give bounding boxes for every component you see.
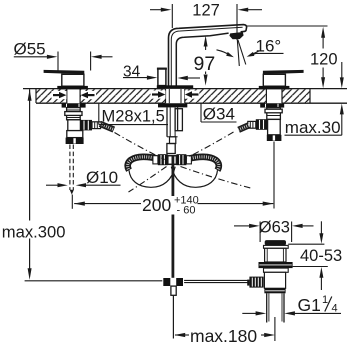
left valve lower body	[67, 131, 83, 138]
dashed pull rod under left valve	[70, 145, 74, 195]
swing arc upper right	[184, 132, 234, 160]
left escutcheon	[57, 86, 88, 90]
angle 16 degrees	[217, 40, 284, 67]
right lever handle	[263, 70, 304, 86]
dimension 120	[247, 26, 328, 88]
drain pop-up waste body	[259, 240, 293, 293]
pop-up rod joint	[163, 278, 183, 286]
swing arc lower right	[181, 167, 253, 189]
right valve locknut	[260, 103, 284, 107]
dimension 127 top	[150, 4, 262, 40]
drain tailpipe	[267, 293, 284, 322]
right valve extension line	[273, 142, 275, 209]
right braided hose	[189, 157, 219, 170]
dimension G1 1/4	[242, 311, 341, 315]
spout shank below counter	[158, 103, 187, 153]
dimension 40-53	[288, 221, 328, 290]
left valve hose stub	[100, 124, 114, 130]
svg-text:M28x1,5: M28x1,5	[102, 108, 165, 126]
svg-text:Ø10: Ø10	[86, 168, 118, 187]
swing arc upper left	[115, 133, 165, 160]
drain centerline extension	[274, 317, 276, 341]
right valve inlet nut	[248, 119, 268, 130]
svg-text:max.30: max.30	[285, 118, 341, 137]
label diameter 34	[201, 103, 237, 122]
dimension max.30	[285, 62, 344, 135]
svg-text:127: 127	[192, 1, 220, 19]
hole arrows left valve	[52, 91, 97, 99]
svg-text:Ø34: Ø34	[203, 105, 235, 124]
hole spout	[165, 89, 185, 103]
hole right valve	[266, 89, 282, 103]
dimension 200 +140 -60	[72, 195, 273, 209]
svg-text:40-53: 40-53	[300, 247, 342, 265]
countertop hatched section	[23, 89, 347, 104]
left valve bottom hex	[66, 138, 84, 144]
hole left valve	[67, 89, 81, 103]
hole arrows spout	[151, 91, 200, 99]
dimension max.180	[174, 333, 275, 337]
svg-text:- 60: - 60	[177, 205, 196, 217]
horizontal pop-up rod	[184, 280, 249, 282]
svg-text:1: 1	[322, 294, 328, 306]
svg-text:Ø55: Ø55	[14, 40, 46, 59]
faucet spout	[169, 25, 247, 87]
dimension diameter 55	[14, 52, 113, 71]
svg-text:16°: 16°	[256, 37, 282, 56]
spout aerator	[229, 32, 243, 39]
svg-text:G1: G1	[298, 295, 321, 315]
left lever handle	[44, 70, 85, 86]
dimension diameter 10	[46, 183, 121, 187]
dimension 34	[123, 76, 200, 81]
pop-up rod below joint	[171, 286, 176, 295]
dimension diameter 63	[234, 222, 314, 243]
svg-text:120: 120	[310, 51, 338, 69]
reference line to pop-up rod	[25, 280, 163, 282]
right valve body	[268, 119, 281, 134]
left valve shank	[65, 108, 82, 120]
svg-text:200: 200	[142, 195, 171, 215]
hose tee fitting	[153, 154, 192, 165]
spout base flange	[157, 85, 193, 89]
right escutcheon	[259, 86, 290, 90]
spout pull-rod knob	[158, 68, 166, 85]
svg-text:34: 34	[123, 63, 141, 80]
svg-text:97: 97	[194, 53, 216, 75]
svg-text:max.180: max.180	[190, 326, 257, 346]
right valve hose stub	[239, 125, 249, 130]
svg-text:4: 4	[332, 303, 338, 315]
dimension 97	[204, 36, 208, 86]
svg-text:Ø63: Ø63	[259, 219, 290, 237]
drain knob	[247, 277, 263, 288]
left valve outlet nut	[80, 120, 100, 130]
svg-text:max.300: max.300	[2, 222, 66, 241]
dimension max.300	[28, 89, 32, 280]
left valve body	[68, 120, 81, 131]
pop-up rod lower	[171, 215, 174, 278]
right valve bottom hex	[267, 135, 282, 141]
label M28x1,5	[99, 103, 168, 124]
right hose loop	[171, 167, 217, 188]
left hose loop	[129, 167, 175, 188]
left valve locknut	[62, 103, 86, 107]
left braided hose	[128, 157, 158, 170]
right valve shank	[265, 108, 282, 120]
pop-up rod upper	[171, 156, 174, 196]
swing arc lower left	[129, 167, 167, 193]
